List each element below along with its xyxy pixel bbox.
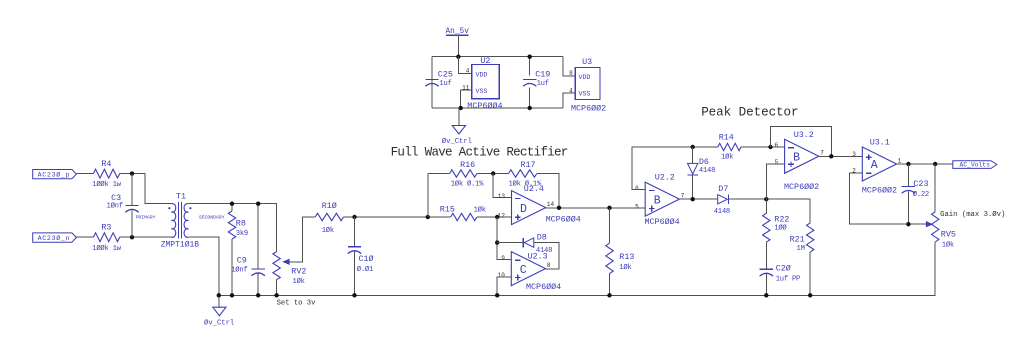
wire C23 column xyxy=(907,164,909,224)
ground 0v_Ctrl transformer xyxy=(204,295,234,327)
svg-text:10: 10 xyxy=(498,272,506,279)
svg-text:U3.1: U3.1 xyxy=(870,138,890,148)
wire R16 branch riser xyxy=(428,174,450,218)
resistor R4 xyxy=(92,159,121,189)
svg-text:MCP6ØØ2: MCP6ØØ2 xyxy=(571,103,606,113)
wire U3.1 output xyxy=(897,163,953,165)
svg-text:4: 4 xyxy=(569,87,573,94)
svg-text:C1Ø: C1Ø xyxy=(359,254,374,264)
wire ground rail xyxy=(219,242,935,295)
title Full Wave Active Rectifier xyxy=(391,145,568,159)
svg-text:R8: R8 xyxy=(236,219,246,229)
diode D7 xyxy=(714,184,730,216)
node R8 top xyxy=(230,202,234,206)
node VSS U2 junction xyxy=(459,106,463,110)
svg-text:7: 7 xyxy=(820,150,824,157)
diode D8 xyxy=(523,233,552,256)
wire pin13 drop xyxy=(493,174,511,198)
node C10 bottom xyxy=(352,293,356,297)
svg-text:1Øk Ø.1%: 1Øk Ø.1% xyxy=(451,180,484,189)
svg-text:MCP6ØØ4: MCP6ØØ4 xyxy=(645,217,680,227)
resistor R22 xyxy=(763,199,790,242)
svg-text:7: 7 xyxy=(681,193,685,200)
svg-text:R3: R3 xyxy=(101,223,111,233)
svg-text:C19: C19 xyxy=(535,70,550,80)
wire secondary bottom drop xyxy=(188,237,218,295)
svg-text:5: 5 xyxy=(635,203,639,210)
node R13 top xyxy=(607,206,611,210)
node R4 C3 junction xyxy=(130,171,134,175)
svg-text:MCP6ØØ4: MCP6ØØ4 xyxy=(526,282,561,292)
net flag AC230_n xyxy=(33,233,77,242)
svg-text:1Øk: 1Øk xyxy=(721,152,733,161)
resistor R14 xyxy=(718,132,741,161)
svg-text:1Øk: 1Øk xyxy=(474,206,486,215)
svg-text:R17: R17 xyxy=(521,160,536,170)
node C9 bottom xyxy=(256,293,260,297)
wire U3.2 output xyxy=(819,155,863,157)
svg-text:1uf: 1uf xyxy=(537,80,549,88)
svg-text:1Ønf: 1Ønf xyxy=(231,266,247,275)
wire VDD U3 tap xyxy=(563,57,575,76)
svg-text:VSS: VSS xyxy=(476,88,488,95)
ground 0v_Ctrl power xyxy=(442,108,472,146)
svg-text:1Ønf: 1Ønf xyxy=(107,202,123,211)
capacitor C20 xyxy=(760,264,800,284)
svg-text:C25: C25 xyxy=(438,70,453,80)
capacitor C3 xyxy=(107,193,139,212)
svg-text:Gain (max 3.Øv): Gain (max 3.Øv) xyxy=(940,210,1005,219)
node RV2 bottom xyxy=(274,293,278,297)
wire C3 column xyxy=(131,174,133,238)
label Set to 3v xyxy=(277,299,317,307)
wire R17 feedback xyxy=(537,174,559,208)
resistor R3 xyxy=(92,223,121,253)
svg-text:PRIMARY: PRIMARY xyxy=(136,214,156,220)
wire R10 to R15 xyxy=(344,216,451,218)
op-amp U2.3 xyxy=(498,251,562,292)
svg-text:AC23Ø_n: AC23Ø_n xyxy=(38,234,71,242)
svg-text:Full Wave Active Rectifier: Full Wave Active Rectifier xyxy=(391,145,568,159)
resistor R10 xyxy=(315,201,343,235)
wire D8 row left xyxy=(497,242,523,244)
svg-text:MCP6ØØ2: MCP6ØØ2 xyxy=(862,186,897,196)
wire U2.2 feedback xyxy=(632,147,718,190)
svg-text:A: A xyxy=(871,159,878,172)
wire top power rail xyxy=(432,56,563,58)
svg-text:11: 11 xyxy=(462,84,470,91)
node C23 top xyxy=(906,162,910,166)
potentiometer RV2 xyxy=(273,252,306,296)
node D6 top xyxy=(691,145,695,149)
svg-text:R14: R14 xyxy=(719,132,734,142)
svg-text:6: 6 xyxy=(774,142,778,149)
wire secondary top rail xyxy=(188,204,276,252)
svg-text:RV5: RV5 xyxy=(941,230,956,240)
svg-text:AC_Volts: AC_Volts xyxy=(960,162,991,169)
node U3.2 pin6 junction xyxy=(768,145,772,149)
svg-text:U2.4: U2.4 xyxy=(524,184,544,194)
wire VDD U2 tap xyxy=(458,57,471,74)
wire AC230_p to R4 xyxy=(76,173,93,175)
svg-text:D7: D7 xyxy=(718,184,728,194)
wire U2.3 pin10 xyxy=(497,277,511,295)
svg-text:1Øk: 1Øk xyxy=(942,240,954,249)
capacitor C9 xyxy=(231,256,265,276)
svg-text:T1: T1 xyxy=(176,191,186,201)
node storage junction xyxy=(764,197,768,201)
svg-text:1uf: 1uf xyxy=(439,80,451,88)
svg-text:1ØØk 1w: 1ØØk 1w xyxy=(92,244,121,253)
wire U2.4 node drop xyxy=(497,217,511,259)
resistor R21 xyxy=(790,223,814,295)
power flag An_5v xyxy=(446,28,470,36)
svg-text:3k9: 3k9 xyxy=(236,230,248,238)
label Gain max xyxy=(940,210,1005,219)
capacitor C25 xyxy=(425,70,453,88)
capacitor C23 xyxy=(902,179,929,199)
svg-text:8: 8 xyxy=(569,70,573,77)
svg-text:1: 1 xyxy=(898,157,902,164)
svg-text:R16: R16 xyxy=(460,160,475,170)
svg-text:R22: R22 xyxy=(774,214,789,224)
svg-text:5: 5 xyxy=(774,159,778,166)
wire D8 to U2.3 out xyxy=(534,243,559,269)
svg-text:Øv_Ctrl: Øv_Ctrl xyxy=(204,319,234,328)
wire C9 column xyxy=(257,204,259,296)
diode D6 xyxy=(688,147,716,199)
svg-text:1M: 1M xyxy=(797,245,805,253)
resistor R15 xyxy=(440,205,486,221)
wire C19 column xyxy=(529,57,531,108)
node RV5 top xyxy=(933,162,937,166)
svg-text:VSS: VSS xyxy=(579,91,591,98)
svg-text:1uf PP: 1uf PP xyxy=(776,276,800,284)
capacitor C19 xyxy=(523,70,550,88)
svg-text:C9: C9 xyxy=(237,256,247,266)
svg-text:6: 6 xyxy=(635,185,639,192)
svg-text:C2Ø: C2Ø xyxy=(776,264,791,274)
svg-text:U3: U3 xyxy=(582,57,592,67)
node U2.2 output junction xyxy=(691,197,695,201)
wire AC230_n to R3 xyxy=(76,236,93,238)
svg-text:B: B xyxy=(793,152,800,165)
node R13 bottom xyxy=(607,293,611,297)
net flag AC230_p xyxy=(33,170,77,179)
op-amp U3 power box xyxy=(569,57,606,113)
svg-text:1Øk: 1Øk xyxy=(619,263,631,272)
op-amp U2 power box xyxy=(462,56,502,111)
node R21 ground xyxy=(808,293,812,297)
wire C10 column xyxy=(354,217,356,295)
svg-text:SECONDARY: SECONDARY xyxy=(199,214,225,220)
wire U3.1 feedback xyxy=(849,173,926,224)
wire R16 to R17 xyxy=(477,173,509,175)
svg-text:U2: U2 xyxy=(480,56,490,66)
node C10 top xyxy=(352,215,356,219)
node R15 R16 junction xyxy=(426,215,430,219)
svg-text:MCP6ØØ4: MCP6ØØ4 xyxy=(467,101,502,111)
svg-text:12: 12 xyxy=(498,212,506,219)
svg-text:R4: R4 xyxy=(101,159,111,169)
svg-text:C23: C23 xyxy=(913,179,928,189)
wire VSS U2 tap xyxy=(461,90,472,108)
svg-text:U3.2: U3.2 xyxy=(794,130,814,140)
svg-text:4148: 4148 xyxy=(714,208,730,216)
svg-text:R13: R13 xyxy=(619,252,634,262)
node R16 R17 junction xyxy=(491,171,495,175)
wire R15 to U2.4 xyxy=(477,216,512,218)
svg-text:13: 13 xyxy=(498,193,506,200)
node C23 bottom junction xyxy=(906,222,910,226)
potentiometer RV5 xyxy=(926,164,956,249)
net flag AC_Volts xyxy=(953,161,997,169)
svg-text:Ø.Ø1: Ø.Ø1 xyxy=(357,265,373,274)
svg-text:U2.3: U2.3 xyxy=(528,251,548,261)
svg-text:Ø.22: Ø.22 xyxy=(913,190,929,199)
resistor R17 xyxy=(509,160,542,189)
svg-text:R15: R15 xyxy=(440,205,455,215)
svg-text:1ØØk 1w: 1ØØk 1w xyxy=(92,180,121,189)
wire bottom power rail xyxy=(432,107,563,109)
svg-text:MCP6ØØ2: MCP6ØØ2 xyxy=(784,182,819,192)
wire U2.2 output xyxy=(679,198,717,200)
svg-text:1Øk: 1Øk xyxy=(293,277,305,286)
op-amp U2.4 xyxy=(498,184,581,224)
wire U3.2 pin5 xyxy=(766,164,784,199)
svg-text:U2.2: U2.2 xyxy=(655,173,675,183)
svg-text:4: 4 xyxy=(466,67,470,74)
node R8 bottom xyxy=(230,293,234,297)
node An_5v rail junction xyxy=(456,55,460,59)
svg-text:VDD: VDD xyxy=(579,74,591,81)
svg-text:AC23Ø_p: AC23Ø_p xyxy=(38,170,71,178)
svg-text:9: 9 xyxy=(501,255,505,262)
wire R4 to primary top xyxy=(120,174,172,204)
wire left power drop xyxy=(431,57,433,108)
svg-text:Peak Detector: Peak Detector xyxy=(701,105,798,119)
svg-text:C3: C3 xyxy=(111,193,121,203)
node R17 feedback junction xyxy=(557,206,561,210)
wire R3 to primary bottom xyxy=(120,236,172,238)
resistor R8 xyxy=(228,204,248,296)
node transformer ground junction xyxy=(217,293,221,297)
wire R14 to U3.2 xyxy=(741,146,785,148)
svg-text:Set to 3v: Set to 3v xyxy=(277,299,317,307)
wire RV2 wiper to R10 xyxy=(290,217,316,262)
svg-text:1ØØ: 1ØØ xyxy=(774,224,787,233)
node C20 ground xyxy=(764,293,768,297)
svg-text:B: B xyxy=(654,194,661,207)
node C19 top xyxy=(528,55,532,59)
node D8 anode junction xyxy=(495,240,499,244)
svg-text:3: 3 xyxy=(852,151,856,158)
op-amp U3.1 xyxy=(852,138,902,196)
svg-text:8: 8 xyxy=(547,262,551,269)
svg-text:C: C xyxy=(520,264,527,277)
node U2.4 plus junction xyxy=(495,215,499,219)
svg-text:R1Ø: R1Ø xyxy=(322,201,337,211)
resistor R16 xyxy=(450,160,485,189)
svg-text:D6: D6 xyxy=(699,157,709,167)
wire VSS U3 tap xyxy=(563,93,575,108)
svg-text:2: 2 xyxy=(852,167,856,174)
svg-text:14: 14 xyxy=(547,201,555,208)
svg-text:4148: 4148 xyxy=(699,167,715,175)
svg-text:1Øk: 1Øk xyxy=(322,226,334,235)
node U2.3 pin10 ground xyxy=(495,293,499,297)
node U3.2 output junction xyxy=(829,154,833,158)
wire An_5v to rail xyxy=(457,35,459,56)
wire U3.2 feedback xyxy=(771,127,832,157)
wire U2.4 output xyxy=(546,207,646,209)
svg-text:R21: R21 xyxy=(790,234,805,244)
svg-text:D: D xyxy=(520,203,527,216)
svg-text:ZMPT1Ø1B: ZMPT1Ø1B xyxy=(161,240,200,249)
op-amp U3.2 xyxy=(774,130,824,192)
transformer T1 xyxy=(136,191,225,249)
title Peak Detector xyxy=(701,105,798,119)
wire D7 to storage xyxy=(728,199,810,223)
svg-text:RV2: RV2 xyxy=(291,267,306,277)
wire R22 to C20 xyxy=(765,242,767,295)
svg-text:MCP6ØØ4: MCP6ØØ4 xyxy=(546,215,581,225)
svg-text:D8: D8 xyxy=(537,233,547,243)
capacitor C10 xyxy=(348,247,374,274)
node C19 bottom xyxy=(528,106,532,110)
node R3 C3 junction xyxy=(130,235,134,239)
svg-text:VDD: VDD xyxy=(476,71,488,78)
op-amp U2.2 xyxy=(635,173,685,227)
resistor R13 xyxy=(606,208,635,295)
node C9 top xyxy=(256,202,260,206)
